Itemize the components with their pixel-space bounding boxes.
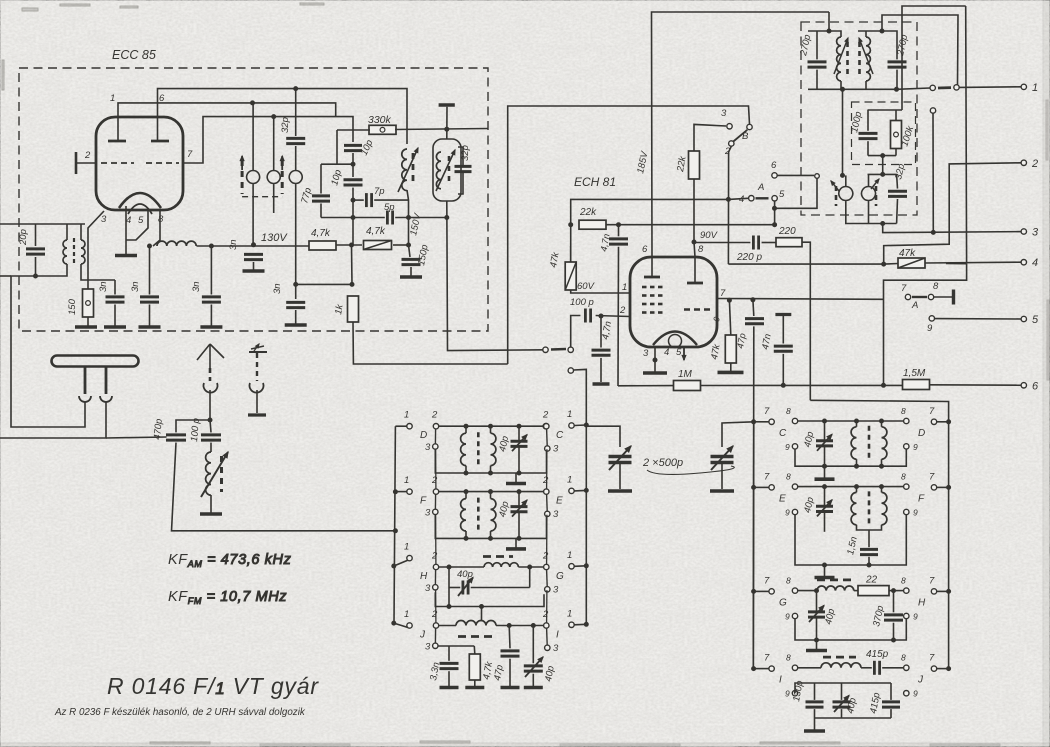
wire 40p stems	[824, 421, 826, 441]
svg-text:9: 9	[785, 612, 790, 622]
junction	[823, 419, 827, 423]
junction terminal3 line	[931, 230, 935, 234]
capacitor 270p (primary)	[808, 62, 827, 67]
svg-text:415p: 415p	[866, 649, 889, 660]
wire 40p stem b	[824, 512, 826, 532]
wire 470p top	[176, 420, 210, 432]
wire 4,7n-2 bottom	[600, 358, 602, 382]
switch wafer link	[546, 570, 549, 587]
svg-text:20p: 20p	[18, 229, 29, 246]
wire 1R stub	[574, 424, 586, 427]
ECC85 grid dashes (triode 1)	[101, 162, 134, 164]
IF primary core dashes	[846, 42, 849, 76]
svg-text:1: 1	[622, 282, 627, 293]
wire 330k left	[337, 129, 370, 131]
terminal 1 (row E)	[567, 475, 574, 494]
svg-text:ECH 81: ECH 81	[574, 175, 616, 189]
label 4 (switch A)	[739, 194, 744, 205]
wire 3n-3 bottom	[210, 305, 212, 328]
svg-text:8: 8	[901, 653, 906, 663]
wire contact6 to IF link	[777, 174, 814, 176]
wire rowR4 gnd stem	[814, 718, 816, 731]
svg-text:8: 8	[698, 244, 704, 255]
junction 77p/detector column	[351, 162, 355, 166]
pin 2 label	[619, 305, 626, 316]
wire IF1 sec riser to switch	[882, 15, 958, 85]
label C	[556, 430, 564, 441]
svg-text:7: 7	[929, 406, 935, 417]
loop coil L2	[267, 163, 280, 191]
svg-text:1: 1	[1032, 82, 1038, 94]
junction	[823, 464, 827, 468]
label G	[556, 571, 564, 582]
label B	[742, 131, 749, 142]
wire 3L branch	[438, 645, 474, 647]
terminal 1 (row I)	[567, 609, 574, 628]
svg-text:8: 8	[933, 281, 939, 292]
wire 47k-1 top	[570, 246, 572, 262]
tuning arrow (dashed) left	[240, 156, 244, 194]
terminal 9 (row G)	[785, 612, 798, 622]
pin 2 label	[84, 150, 91, 161]
switch wafer link	[434, 628, 436, 643]
junction IF1 bottom / A6 riser	[841, 87, 845, 91]
svg-text:3: 3	[643, 348, 649, 359]
wire 100p to pin2	[596, 316, 630, 317]
ground below 3n-5	[285, 323, 307, 327]
switch A contact 6	[772, 173, 777, 178]
label C	[779, 428, 787, 439]
junction rail/3n-3	[209, 244, 213, 248]
osc coil rowR4	[821, 663, 861, 668]
wire IF2 bottom to terminal3 line	[883, 224, 1021, 233]
svg-text:150: 150	[67, 298, 78, 315]
wire row3 right drop	[529, 567, 531, 588]
wire B2 drop	[728, 146, 731, 264]
label 7p	[374, 186, 385, 197]
junction A5 drop	[773, 206, 777, 210]
junction rail/1k column	[350, 243, 354, 247]
ground rowR2	[815, 576, 835, 580]
svg-text:1: 1	[404, 475, 409, 486]
junction 4,7n-1 top	[617, 223, 621, 227]
wire IF2 coil1 top	[845, 175, 847, 179]
ground rowR3	[806, 649, 827, 653]
label 2 (switch B)	[724, 146, 731, 157]
wire 3n-1 bottom	[114, 305, 116, 328]
ECH81 cathode dome	[653, 332, 697, 346]
wire gang right feed	[722, 422, 754, 447]
label J	[917, 675, 924, 686]
terminal 9 (row I)	[785, 689, 798, 699]
wire AVC line down	[617, 247, 620, 386]
capacitor 32p (IF2)	[888, 191, 907, 196]
wire rowR4 mid	[861, 667, 872, 669]
wire 5p row	[321, 217, 385, 219]
wire 40p rowR3 bottom	[816, 617, 818, 640]
switch wafer bus right	[546, 515, 548, 565]
wire rowR2 bottom bus	[795, 515, 906, 565]
capacitor 3n (cathode rail)	[140, 297, 159, 302]
switch contact small (IF)	[815, 174, 820, 179]
ground gang left	[608, 489, 632, 493]
capacitor 32p (discriminator)	[455, 166, 472, 171]
rowR4 core dashes	[823, 656, 856, 659]
wire A5 to screen line	[774, 201, 776, 225]
junction	[815, 638, 819, 642]
terminal 8 (row J)	[901, 653, 909, 671]
label 185V	[635, 149, 651, 175]
wire 130V rail	[197, 245, 311, 247]
switch contact 3 (row H)	[425, 583, 438, 594]
svg-text:3: 3	[721, 108, 727, 119]
junction right bus	[584, 488, 588, 492]
wire pin5 join	[126, 208, 148, 240]
wire 3,3n stems	[448, 646, 450, 661]
wire 150p bottom	[410, 267, 412, 277]
wire 100k top link	[868, 109, 903, 111]
wire trimmer branch b	[471, 587, 530, 589]
wire 1R stub	[574, 623, 586, 626]
ground below 3n-1	[104, 325, 126, 329]
label 4,7k	[481, 660, 495, 681]
svg-text:Az R 0236 F készülék hasonló: Az R 0236 F készülék hasonló, de 2 URH s…	[54, 707, 306, 718]
wire 77p column	[336, 130, 338, 164]
wire gang left feed	[586, 426, 620, 447]
switch wafer link	[546, 494, 549, 511]
wire 1L stub	[394, 623, 408, 627]
FM folded dipole antenna	[52, 356, 139, 367]
terminal 9 (row H)	[904, 612, 918, 622]
wire 40p-R4 stems	[841, 683, 843, 700]
auxiliary antenna symbol	[249, 344, 267, 352]
wire row2 bottom bus	[435, 515, 546, 539]
dipole left hook	[79, 396, 91, 402]
switch contact 2 (row D)	[431, 410, 439, 429]
resistor 1M	[674, 381, 701, 391]
ground 3,3n	[440, 686, 459, 690]
ECC85 anode plate (triode 2)	[151, 140, 169, 143]
wire AVC loop right	[884, 264, 967, 386]
label 1,5n	[845, 536, 860, 556]
label E	[779, 493, 786, 504]
wire loop2 top	[273, 117, 275, 163]
label 32p	[893, 163, 907, 181]
svg-text:470p: 470p	[152, 418, 165, 440]
svg-text:9: 9	[785, 689, 790, 699]
wire 100p/100k bottom bus	[868, 155, 896, 157]
capacitor 3n (antenna)	[106, 297, 125, 302]
wire coil2 stem b	[490, 531, 492, 538]
wire coil1 bottom stub	[840, 81, 842, 89]
junction top bus	[489, 424, 493, 428]
svg-text:3: 3	[101, 214, 107, 225]
wire 270p-1 top stem	[816, 31, 818, 59]
wire 1L stub	[394, 560, 408, 566]
AM antenna lead dashes	[209, 368, 212, 381]
label H	[420, 571, 428, 582]
terminal 1	[1021, 82, 1038, 94]
label 5p	[384, 202, 395, 213]
capacitor 10p (lower)	[344, 180, 363, 185]
terminal 7 (row G left)	[764, 575, 774, 594]
label F	[918, 493, 925, 504]
AM antenna coil (variable)	[206, 452, 211, 495]
wire AVC branch up-right	[946, 263, 967, 265]
switch contact 3 (row E)	[545, 509, 559, 520]
svg-text:22k: 22k	[579, 207, 597, 218]
wire 150 top node	[87, 272, 89, 289]
resistor 47k (grid leak)	[725, 335, 736, 363]
wire IF2 cap top stem	[896, 174, 899, 188]
capacitor 220p	[753, 236, 758, 250]
wire secondary coil top stub	[865, 31, 867, 37]
terminal 8 (row E)	[786, 471, 798, 489]
wire rowR4 bus left	[798, 667, 821, 669]
resistor 22	[858, 586, 889, 596]
junction	[855, 464, 859, 468]
svg-text:7: 7	[929, 653, 935, 664]
junction IF1 bottom right	[895, 87, 899, 91]
wire contact down lead	[932, 113, 934, 232]
wire 4,7k stems	[473, 646, 476, 654]
label 60V	[577, 281, 596, 292]
svg-text:7: 7	[764, 406, 770, 417]
wire 32p-1 top	[295, 89, 297, 136]
resistor 330k	[369, 125, 396, 134]
switch contact 9	[929, 316, 934, 321]
gang link curve	[647, 466, 734, 474]
svg-text:2: 2	[431, 609, 438, 620]
switch contact 3 (row C)	[545, 444, 559, 455]
svg-text:7: 7	[764, 653, 770, 664]
wire loop1 bottom	[252, 191, 254, 245]
wire 40p stem b	[518, 446, 520, 473]
dashed gang link	[242, 196, 282, 198]
ECH81 hexode grid dots	[642, 287, 663, 313]
wire 40p-4 bottom	[532, 674, 534, 686]
AM IF coil primary (rowR1)	[851, 427, 856, 459]
label 415p	[866, 649, 889, 660]
wire A6 riser	[842, 89, 844, 175]
switch contact 2 (row F)	[431, 475, 439, 494]
wire 415p-2 stems	[890, 683, 892, 700]
wire 270p-2 bottom stem	[896, 70, 898, 90]
wire B-switch line to pin1 column (y=199.4)	[571, 199, 729, 293]
ground 47k-2	[718, 371, 744, 375]
switch contact (IF out)	[930, 85, 935, 90]
svg-text:D: D	[420, 430, 427, 441]
resistor 22k	[579, 220, 606, 229]
wire IF1 primary bottom	[808, 88, 897, 90]
pin 3 label	[643, 348, 649, 359]
heater arrow	[682, 348, 686, 360]
svg-text:G: G	[779, 597, 787, 608]
wire 1k to FM output	[353, 322, 508, 364]
svg-text:3n: 3n	[272, 283, 283, 294]
label 100k	[899, 124, 916, 148]
wire 47k-2 stem	[729, 300, 730, 335]
svg-text:3: 3	[553, 444, 559, 455]
wire 1R stub	[574, 565, 586, 568]
wire IF2 bottom bus	[846, 208, 897, 224]
svg-text:7: 7	[764, 471, 770, 482]
switch B contact 1	[747, 124, 752, 129]
wire 47k-3 to terminal 4	[925, 261, 1021, 264]
label ECH 81	[574, 175, 616, 189]
ECC85 grid dashes (triode 2)	[146, 162, 179, 164]
rowR3 core dashes	[817, 579, 852, 582]
wire row4 coil tap	[481, 607, 483, 621]
svg-text:32p: 32p	[280, 117, 291, 133]
junction right bus	[584, 423, 588, 427]
wire FM AF line (x=507.7)	[508, 106, 750, 364]
aux antenna socket	[250, 383, 264, 393]
wire coil2 stem b	[490, 466, 492, 473]
svg-text:7: 7	[901, 283, 907, 294]
svg-text:5: 5	[1032, 314, 1039, 326]
AM IF coil secondary (rowR1)	[882, 427, 887, 459]
svg-text:H: H	[918, 597, 926, 608]
wire IF1 bottom to switch contact	[897, 88, 931, 89]
wire IF1 top riser	[828, 12, 830, 31]
junction right bus	[584, 622, 588, 626]
wire 130p bottom	[814, 709, 816, 718]
wire 22k-2 bottom to pin8 node	[693, 179, 695, 242]
subtitle note	[54, 707, 306, 718]
wire 47p stem	[752, 300, 755, 316]
svg-text:KFFM = 10,7 MHz: KFFM = 10,7 MHz	[168, 589, 287, 606]
svg-text:3: 3	[1032, 227, 1039, 239]
wire 20p top	[35, 224, 37, 246]
junction row3 left	[447, 565, 451, 569]
wire 220p to 220	[762, 242, 776, 244]
wire 7R stub	[937, 668, 949, 670]
junction rail/32p column	[252, 243, 256, 247]
label 10p	[359, 138, 376, 157]
svg-text:9: 9	[913, 689, 918, 699]
wire rowR3 gnd stem	[816, 640, 818, 651]
IF secondary tuning arrow	[859, 38, 873, 74]
wire rail to 1k	[351, 245, 354, 284]
ground below 3n-3	[200, 325, 222, 329]
coil core dashes	[477, 432, 480, 467]
junction 22k-1 left	[569, 223, 573, 227]
wire 7R stub	[937, 421, 949, 423]
switch contact 3 (row D)	[425, 442, 438, 453]
terminal 8 (row F)	[901, 471, 909, 489]
svg-text:4: 4	[1032, 257, 1038, 269]
terminal 1 (row D)	[404, 410, 412, 429]
label 4,7n	[599, 233, 612, 252]
junction loop1 top	[251, 101, 255, 105]
svg-text:J: J	[419, 630, 426, 641]
junction left bus	[392, 564, 396, 568]
svg-text:7: 7	[720, 288, 726, 299]
label 4,7n	[600, 320, 614, 340]
label 130V	[261, 232, 288, 244]
label 47p	[735, 333, 748, 350]
svg-text:3: 3	[425, 507, 431, 518]
svg-text:A: A	[757, 182, 764, 193]
ground below 3n-2	[139, 325, 161, 329]
label 40p	[802, 431, 816, 449]
wire coil bottoms link	[857, 525, 882, 530]
junction	[823, 485, 827, 489]
AM/FM switch blade	[551, 348, 566, 351]
switch contact 2 (row E)	[542, 475, 549, 494]
label 4,7k	[311, 228, 331, 239]
label 3 (switch B)	[721, 108, 727, 119]
wire 77p top	[320, 164, 322, 193]
AM antenna plug socket	[204, 383, 218, 393]
capacitor 150p	[402, 259, 421, 264]
trimmer 40p (row 2)	[511, 500, 528, 516]
wire dipole feed to 470p	[106, 437, 167, 438]
wire coil1 bottom	[856, 459, 858, 466]
junction screen line end	[773, 223, 777, 227]
svg-text:7: 7	[764, 575, 770, 586]
switch wafer bus right	[546, 590, 548, 623]
ECH81 triode grid dashes	[684, 308, 711, 310]
wire IF1 secondary top	[858, 31, 897, 59]
oscillator coil (arrow-tuned)	[402, 149, 407, 191]
label 3n	[130, 281, 141, 292]
terminal 8 (row D)	[901, 406, 909, 424]
label E	[556, 496, 563, 507]
terminal 9 (row F)	[904, 508, 918, 518]
svg-text:I: I	[779, 675, 782, 686]
wire rowR3 bottom bus	[795, 618, 906, 640]
wire rowR1 top bus	[798, 420, 904, 422]
wire 100p bottom	[867, 141, 869, 155]
IF2 right tuning arrow	[871, 179, 879, 189]
wire row3 bottom bus	[435, 592, 544, 606]
coil core dashes	[868, 426, 871, 461]
terminal 1 (row J)	[404, 609, 412, 628]
svg-text:ECC 85: ECC 85	[112, 48, 156, 62]
tuning capacitor 500p (AM)	[711, 446, 734, 470]
switch A blade	[756, 197, 769, 199]
svg-text:22: 22	[865, 574, 878, 585]
wire 77p bottom	[320, 204, 322, 218]
wire pin7 grid line (y=299)	[717, 298, 884, 301]
switch A contact 4	[749, 196, 754, 201]
wire row3 top bus right	[518, 566, 543, 568]
svg-text:9: 9	[913, 612, 918, 622]
junction AM antenna node	[208, 418, 212, 422]
junction 370p top	[892, 589, 896, 593]
IF2 left tuning arrow	[831, 181, 839, 191]
switch contact circle (FM out)	[543, 347, 548, 352]
svg-text:KFAM = 473,6 kHz: KFAM = 473,6 kHz	[168, 552, 292, 569]
label 47n	[760, 333, 774, 351]
svg-text:E: E	[779, 493, 786, 504]
wire 3n-1 top	[114, 280, 116, 295]
wire loop2 bottom stub	[273, 191, 275, 213]
svg-text:3: 3	[553, 509, 559, 520]
ground gang right	[710, 489, 734, 493]
svg-text:8: 8	[786, 653, 791, 663]
capacitor 77p	[312, 196, 330, 201]
svg-text:8: 8	[786, 406, 791, 416]
wire 3n-3 stem	[210, 246, 212, 295]
wire 130V rail 3	[393, 244, 409, 246]
junction 20p bottom	[34, 274, 38, 278]
terminal circle (grid to col 1)	[568, 368, 573, 373]
switch contact 3 (row I)	[545, 643, 559, 654]
label 40p	[497, 435, 511, 453]
